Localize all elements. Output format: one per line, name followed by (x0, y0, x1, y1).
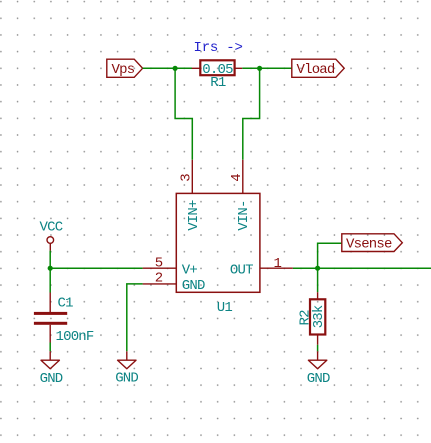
svg-text:VCC: VCC (40, 220, 63, 236)
svg-text:V+: V+ (182, 263, 198, 279)
wire OUT to right edge (293, 267, 431, 269)
pin 2 (143, 271, 177, 287)
global label Vload (292, 59, 344, 78)
svg-text:R1: R1 (210, 75, 226, 91)
pin 1 (260, 256, 293, 272)
svg-text:OUT: OUT (230, 263, 253, 279)
svg-text:GND: GND (307, 371, 330, 387)
svg-text:C1: C1 (58, 296, 74, 312)
wire node B to pin 4 (243, 68, 260, 160)
power flag VCC (40, 220, 63, 251)
svg-text:2: 2 (155, 271, 163, 287)
resistor R1 (192, 60, 243, 75)
svg-text:1: 1 (274, 256, 282, 272)
svg-text:4: 4 (229, 174, 245, 182)
pin 3 (178, 160, 194, 194)
wire node A to pin 3 (175, 68, 192, 160)
junction node D (48, 266, 53, 271)
svg-text:3: 3 (178, 174, 194, 182)
svg-text:Irs ->: Irs -> (194, 40, 243, 56)
wire C1 to GND (49, 343, 51, 352)
svg-text:GND: GND (40, 371, 63, 387)
wire node D to pin 5 (50, 267, 142, 269)
wire node C to Vsense (318, 243, 342, 268)
wire Vps to node A (143, 67, 176, 69)
wire node C to R2 (317, 268, 319, 292)
svg-text:U1: U1 (217, 300, 233, 316)
wire pin 2 to GND (127, 284, 143, 351)
svg-text:VIN+: VIN+ (186, 200, 202, 231)
wire R1 right to node B to Vload (242, 67, 291, 69)
svg-text:Vload: Vload (297, 62, 335, 78)
wire VCC to node D (49, 251, 51, 269)
svg-text:33k: 33k (311, 305, 327, 328)
svg-text:GND: GND (115, 371, 138, 387)
global label Vsense (342, 234, 403, 253)
junction node C (315, 266, 320, 271)
svg-text:GND: GND (182, 278, 205, 294)
pin 5 (143, 255, 177, 271)
svg-text:100nF: 100nF (56, 329, 94, 345)
wire node A to R1 left (175, 67, 192, 69)
svg-text:5: 5 (155, 255, 163, 271)
wire node D to C1 (49, 268, 51, 292)
svg-text:VIN-: VIN- (236, 200, 252, 230)
junction node B (257, 66, 262, 71)
capacitor C1 (34, 293, 67, 343)
global label Vps (107, 59, 143, 78)
svg-text:Vsense: Vsense (346, 237, 392, 253)
junction node A (173, 66, 178, 71)
ground under pin 2 (115, 351, 138, 386)
svg-text:Vps: Vps (112, 62, 135, 78)
resistor R2 (310, 292, 325, 345)
ground under C1 (40, 351, 63, 387)
pin 4 (229, 160, 245, 194)
note Irs -> (194, 40, 243, 56)
wire R2 to GND (317, 345, 319, 352)
op-amp U1 body (176, 193, 260, 292)
ground under R2 (307, 351, 330, 387)
